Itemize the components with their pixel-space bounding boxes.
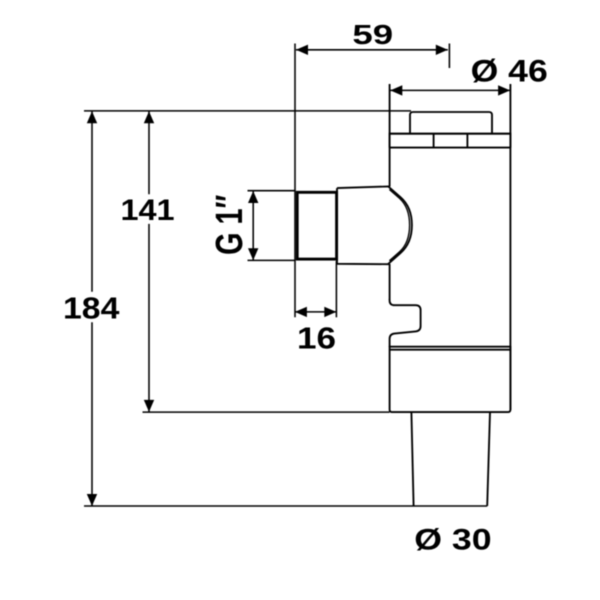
inlet dome (rounded end) outer	[388, 186, 412, 264]
clip notch on left edge	[390, 299, 421, 347]
valve body left edge upper	[389, 84, 391, 187]
outlet pipe	[411, 412, 413, 506]
arrowhead 184 bottom	[87, 494, 97, 506]
dimension line dia46	[390, 89, 510, 91]
dimension line G1	[252, 191, 254, 260]
arrowhead 141 top	[144, 111, 154, 123]
arrowhead 16 right	[324, 307, 336, 317]
svg-text:184: 184	[63, 291, 119, 325]
arrowhead 59 right	[436, 45, 448, 55]
lower flange section	[390, 346, 511, 412]
extension line at flange bottom (141 reference)	[143, 411, 390, 413]
dimension line 59	[296, 49, 448, 51]
centerline tick for 59	[448, 44, 450, 69]
body bottom seam (double line)	[390, 346, 511, 348]
svg-text:59: 59	[352, 18, 393, 50]
svg-text:Ø 46: Ø 46	[471, 54, 548, 89]
extension line 16 right	[335, 261, 337, 317]
arrowhead 184 top	[87, 111, 97, 123]
inlet nut G1 (thick outline)	[297, 192, 336, 259]
arrowhead dia46 right	[498, 85, 510, 95]
arrowhead G1 top	[248, 191, 258, 203]
arrowhead 141 bottom	[144, 400, 154, 412]
valve body right edge	[509, 84, 511, 410]
inlet dome inner highlight line	[389, 190, 409, 261]
top extension line (upper reference plane)	[84, 110, 411, 112]
valve top band (collar with segments)	[390, 134, 511, 148]
dimension line 16	[295, 311, 336, 313]
dimension line 141 (with text gap)	[148, 111, 150, 412]
svg-text:G 1″: G 1″	[209, 195, 251, 255]
extension line at outlet bottom (184 reference)	[84, 505, 487, 507]
valve body left edge mid (between inlet dome and clip notch)	[389, 264, 391, 300]
arrowhead 16 left	[295, 307, 307, 317]
dimension line 184 (with text gap)	[91, 111, 93, 506]
valve cap (push button)	[410, 112, 492, 134]
extension line inlet face / 59-16 left	[294, 44, 296, 318]
arrowhead G1 bottom	[248, 248, 258, 260]
inlet pipe section	[337, 186, 390, 264]
svg-text:16: 16	[297, 321, 336, 355]
svg-text:141: 141	[120, 193, 174, 226]
svg-text:Ø 30: Ø 30	[414, 523, 491, 556]
extension lines G1	[248, 191, 296, 261]
arrowhead 59 left	[296, 45, 308, 55]
arrowhead dia46 left	[390, 85, 402, 95]
